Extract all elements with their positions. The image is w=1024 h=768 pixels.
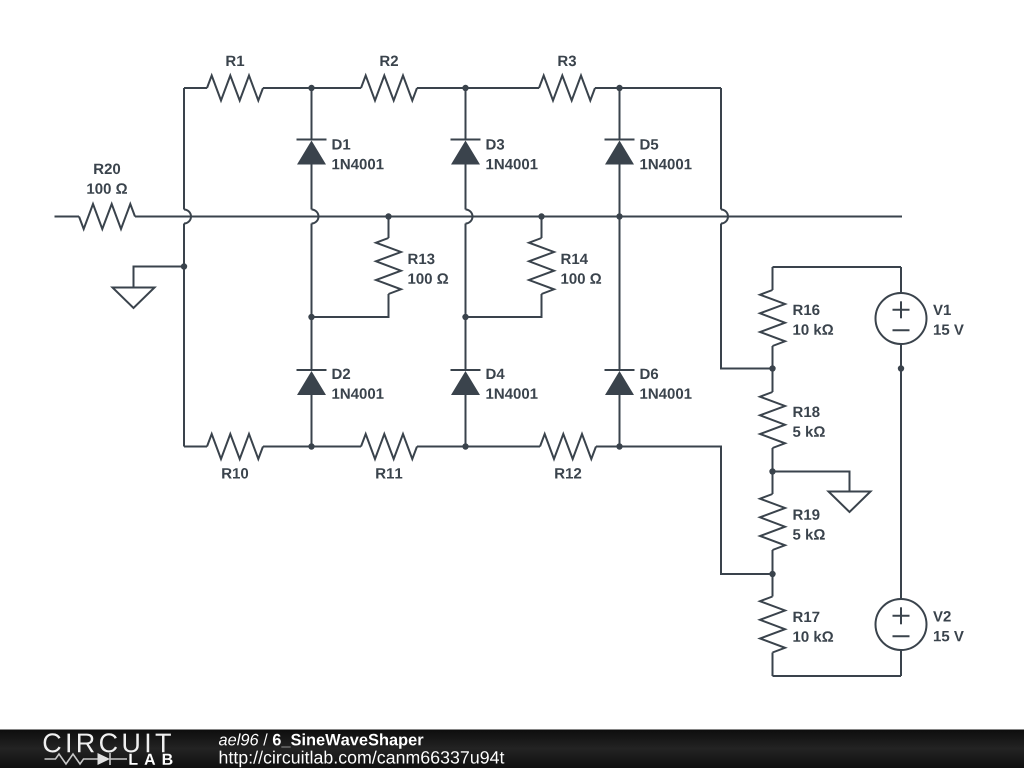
wire mid rail bbox=[135, 216, 902, 218]
wire R10 to R11 bbox=[263, 446, 361, 448]
wire D6 to bottom rail bbox=[619, 395, 621, 447]
ground G2 bbox=[773, 472, 850, 492]
wire R2 to R3 bbox=[417, 87, 539, 89]
resistor R18 bbox=[760, 392, 785, 448]
wire right vertical to R16/R18 node bbox=[721, 224, 773, 369]
wire left vertical upper bbox=[183, 88, 185, 210]
wire R16 top rail bbox=[773, 266, 902, 268]
resistor R1 bbox=[207, 76, 263, 101]
diode D5 bbox=[619, 88, 621, 140]
node R14 return bbox=[462, 314, 468, 320]
diode D3 bbox=[465, 88, 467, 140]
diode D2 bbox=[297, 369, 327, 371]
wire R1 to R2 bbox=[263, 87, 361, 89]
wire hop right vertical over mid rail bbox=[721, 210, 728, 224]
wire D1 to hop bbox=[311, 165, 313, 210]
wire R3 to top-right corner bbox=[595, 87, 721, 89]
node mid rail / D5 column bbox=[616, 213, 622, 219]
ground G1 bbox=[181, 263, 187, 269]
resistor R14 bbox=[541, 217, 543, 239]
wire right vertical upper bbox=[720, 88, 722, 210]
wire R11 to R12 bbox=[417, 446, 540, 448]
resistor R11 bbox=[361, 434, 417, 459]
wire R12 to bottom-right corner bbox=[596, 447, 773, 575]
wire V2 to bottom rail bbox=[900, 650, 902, 676]
wire V1 to V2 bbox=[900, 344, 902, 599]
logo LAB bbox=[129, 754, 172, 765]
wire hop left vertical over mid rail bbox=[184, 210, 191, 224]
footer url bbox=[220, 751, 505, 768]
node top rail / D5 bbox=[616, 85, 622, 91]
logo diode bbox=[98, 753, 111, 765]
node R18/R19 bbox=[769, 468, 775, 474]
node top rail / D1 bbox=[308, 85, 314, 91]
node bottom rail / D4 bbox=[462, 443, 468, 449]
node R13 return bbox=[308, 314, 314, 320]
wire D3 column to D4 bbox=[465, 224, 467, 370]
footer title bbox=[219, 733, 424, 748]
node R19/R17 bbox=[769, 571, 775, 577]
wire left vertical lower bbox=[183, 224, 185, 447]
node bottom rail / D6 bbox=[616, 443, 622, 449]
node mid rail / R14 bbox=[538, 213, 544, 219]
resistor R19 bbox=[760, 494, 785, 550]
diode D6 bbox=[605, 369, 635, 371]
voltage source V2 bbox=[876, 599, 927, 650]
footer bar bbox=[0, 730, 1024, 768]
wire hop D3 column over mid rail bbox=[466, 210, 473, 224]
resistor R3 bbox=[539, 76, 595, 101]
diode D4 bbox=[451, 369, 481, 371]
wire D2 to bottom rail bbox=[311, 395, 313, 447]
logo CIRCUIT bbox=[44, 733, 171, 752]
resistor R13 bbox=[388, 217, 390, 239]
wire D1 column to D2 bbox=[311, 224, 313, 370]
resistor R12 bbox=[540, 434, 596, 459]
resistor R2 bbox=[361, 76, 417, 101]
node V1 negative terminal bbox=[898, 365, 904, 371]
wire D5 to D6 bbox=[619, 165, 621, 370]
wire D3 to hop bbox=[465, 165, 467, 210]
diode D1 bbox=[311, 88, 313, 140]
node bottom rail / D2 bbox=[308, 443, 314, 449]
voltage source V1 bbox=[900, 267, 902, 293]
wire bottom rail left segment bbox=[184, 446, 207, 448]
resistor R17 bbox=[760, 597, 785, 653]
wire top rail left segment bbox=[184, 87, 207, 89]
node mid rail / R13 bbox=[385, 213, 391, 219]
wire R17 bottom rail bbox=[773, 675, 902, 677]
node top rail / D3 bbox=[462, 85, 468, 91]
resistor R10 bbox=[207, 434, 263, 459]
wire D4 to bottom rail bbox=[465, 395, 467, 447]
resistor R20 bbox=[55, 216, 80, 218]
wire hop D1 column over mid rail bbox=[312, 210, 319, 224]
node R16/R18 bbox=[769, 365, 775, 371]
resistor R16 bbox=[772, 267, 774, 290]
logo doodle wire bbox=[45, 753, 128, 765]
